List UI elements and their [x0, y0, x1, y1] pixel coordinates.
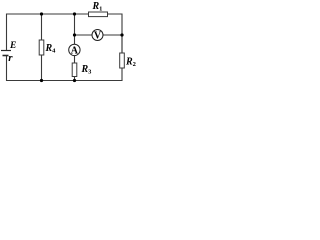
wire top: R1 to top-right corner, down to R2	[108, 14, 123, 53]
voltmeter V	[92, 30, 103, 41]
svg-text:r: r	[8, 52, 13, 64]
wire right: R2 bottom to bottom-right corner	[7, 56, 123, 81]
ammeter A	[69, 44, 80, 55]
junction node bottom R3	[73, 79, 76, 82]
svg-text:V: V	[94, 31, 102, 42]
junction node top R4	[40, 12, 43, 15]
wire R4 branch vertical	[41, 14, 43, 81]
resistor R4 (left branch)	[39, 40, 44, 55]
wire voltmeter branch horizontal	[75, 35, 123, 53]
junction node right of voltmeter	[120, 33, 123, 36]
junction node left of voltmeter	[73, 33, 76, 36]
resistor R2 (right wire)	[120, 53, 125, 68]
junction node top meters	[73, 12, 76, 15]
svg-text:A: A	[71, 46, 79, 57]
wire top: left corner to R1	[7, 14, 89, 51]
battery E,r (cell with internal resistance)	[1, 51, 11, 56]
resistor R1 (top wire)	[89, 12, 108, 17]
junction node bottom R4	[40, 79, 43, 82]
wire ammeter branch vertical	[74, 14, 76, 81]
svg-text:E: E	[9, 41, 16, 51]
resistor R3 (below ammeter)	[72, 63, 77, 77]
